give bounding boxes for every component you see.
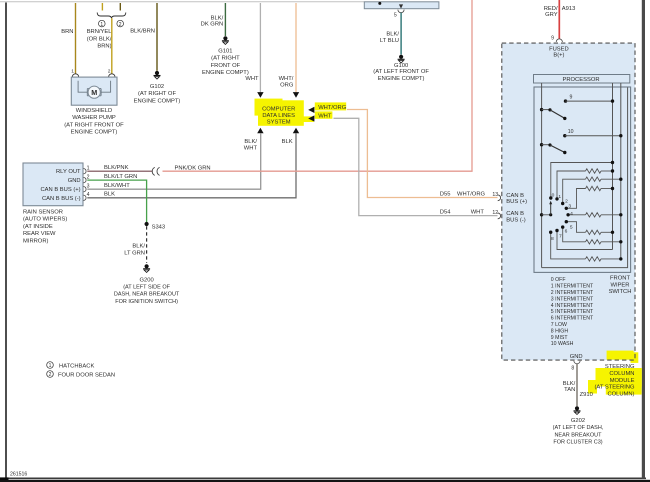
svg-text:LT GRN: LT GRN [124, 250, 145, 256]
svg-text:(AT LEFT SIDE OF: (AT LEFT SIDE OF [123, 285, 170, 291]
legend four door sedan [47, 371, 115, 379]
svg-text:BRN/YEL: BRN/YEL [87, 29, 113, 35]
svg-text:ENGINE COMPT): ENGINE COMPT) [71, 130, 118, 136]
svg-text:RLY OUT: RLY OUT [56, 169, 81, 175]
processor box [534, 75, 630, 84]
svg-text:BLK: BLK [104, 192, 115, 198]
wire PNK/DK GRN to top of page [163, 0, 473, 171]
svg-text:D55: D55 [440, 192, 451, 198]
svg-text:GRY: GRY [545, 12, 558, 18]
switch position legend [551, 277, 594, 347]
module pin 8 exit [571, 361, 580, 372]
wire label BLK/WHT [104, 183, 130, 189]
ground G102 [154, 71, 161, 79]
top cut-off frame line [0, 1, 364, 3]
svg-text:COLUMN): COLUMN) [607, 391, 634, 397]
svg-text:1: 1 [49, 363, 52, 369]
svg-text:FRONT: FRONT [610, 276, 630, 282]
svg-text:5 INTERMITTENT: 5 INTERMITTENT [551, 309, 594, 315]
legend hatchback [47, 362, 95, 370]
motor M1 washer pump [87, 86, 101, 98]
svg-text:RED/: RED/ [544, 6, 558, 12]
label PNK/DK GRN [175, 165, 211, 171]
svg-text:4: 4 [87, 192, 90, 198]
svg-text:TAN: TAN [564, 387, 575, 393]
label BLK/WHT (below box) [244, 139, 258, 151]
svg-text:WHT: WHT [471, 210, 485, 216]
wire BLK/BRN to G102 [156, 3, 158, 71]
svg-text:DASH, NEAR BREAKOUT: DASH, NEAR BREAKOUT [114, 292, 180, 298]
arrow WHT/ORG into box right side [308, 107, 314, 113]
highlight over module corner [607, 351, 639, 363]
svg-text:5: 5 [570, 225, 573, 231]
pin 9 contact row [564, 94, 614, 103]
svg-text:BLK/LT GRN: BLK/LT GRN [104, 174, 137, 180]
row 4 resistor [568, 213, 622, 217]
arrow WHT/ORG into box top [293, 92, 299, 98]
svg-text:FUSED: FUSED [549, 46, 569, 52]
svg-text:(AT RIGHT: (AT RIGHT [211, 56, 240, 62]
inline connector on RLY OUT wire [152, 167, 159, 175]
svg-text:FRONT OF: FRONT OF [211, 63, 241, 69]
wire WHT/ORG from top to computer data lines [295, 3, 297, 92]
wire RED/GRY from top [558, 0, 560, 39]
svg-text:ENGINE COMPT): ENGINE COMPT) [202, 70, 249, 76]
svg-text:BRN): BRN) [97, 44, 111, 50]
svg-text:LT BLU: LT BLU [380, 38, 399, 44]
wire label BLK [104, 192, 115, 198]
label A913 [562, 6, 576, 12]
svg-text:6: 6 [565, 228, 568, 234]
wash switch blade [540, 143, 567, 154]
svg-text:9 MIST: 9 MIST [551, 335, 569, 341]
svg-text:ENGINE COMPT): ENGINE COMPT) [134, 98, 181, 104]
top center module box (cut off) [364, 2, 439, 9]
svg-text:3: 3 [87, 183, 90, 189]
front wiper switch inner box [534, 87, 631, 272]
label G202 [553, 418, 604, 446]
wire WHT from top to computer data lines [259, 3, 261, 92]
bus stub left [541, 83, 543, 268]
svg-text:2: 2 [49, 372, 52, 378]
svg-text:S343: S343 [152, 225, 166, 231]
wire BLK/DK GRN to G101 [224, 3, 226, 36]
svg-text:BUS (-): BUS (-) [506, 217, 525, 223]
bus A (inner right) [612, 83, 614, 250]
svg-text:CAN B: CAN B [506, 193, 524, 199]
label G200 [114, 277, 180, 305]
row 1 resistor [557, 169, 614, 199]
label WHT [245, 76, 259, 82]
ground G200 [143, 264, 150, 272]
svg-text:(AT RIGHT OF: (AT RIGHT OF [138, 91, 176, 97]
svg-text:STEERING: STEERING [605, 364, 635, 370]
label front wiper switch [609, 276, 632, 296]
label CAN B BUS (+) [506, 193, 527, 205]
callout circle 2 [117, 20, 124, 27]
page left border [5, 3, 7, 479]
page bottom border [5, 477, 646, 479]
bus B (outer right) [620, 83, 622, 259]
svg-text:WINDSHIELD: WINDSHIELD [76, 108, 112, 114]
highlight steering column module text blob [588, 368, 642, 395]
callout circle 1 [99, 20, 106, 27]
label D55 WHT/ORG 13 [440, 192, 498, 199]
svg-text:WIPER: WIPER [610, 282, 629, 288]
module pin 9 entry [551, 35, 562, 42]
svg-text:PNK/DK GRN: PNK/DK GRN [175, 165, 211, 171]
label GND [570, 354, 583, 360]
top box pin 5 arrow [394, 4, 404, 18]
row 6 resistor [563, 227, 623, 244]
svg-text:1: 1 [558, 194, 561, 200]
svg-text:2: 2 [87, 174, 90, 180]
label FUSED B(+) [549, 46, 569, 58]
label G101 [202, 48, 249, 76]
svg-text:MIRROR): MIRROR) [23, 239, 49, 245]
svg-text:BLK/BRN: BLK/BRN [130, 28, 155, 34]
label CAN B BUS (-) [506, 211, 525, 223]
svg-text:B(+): B(+) [553, 53, 564, 59]
dashed wire BLK/LT GRN to G200 [146, 226, 148, 263]
svg-text:(AT INSIDE: (AT INSIDE [23, 224, 53, 230]
row 0 (OFF) [551, 161, 614, 198]
svg-text:M: M [91, 88, 97, 97]
svg-text:10 WASH: 10 WASH [551, 341, 574, 347]
svg-text:2 INTERMITTENT: 2 INTERMITTENT [551, 290, 594, 296]
svg-text:A913: A913 [562, 6, 576, 12]
wire BLK/LT GRN from pin 2 to S343 [87, 180, 146, 223]
arrow WHT into box top [257, 92, 263, 98]
svg-text:4 INTERMITTENT: 4 INTERMITTENT [551, 303, 594, 309]
arrow WHT into box right side [308, 115, 314, 121]
rain sensor pin 1 [83, 165, 89, 174]
svg-text:DATA LINES: DATA LINES [262, 113, 295, 119]
svg-text:(AT LEFT OF DASH,: (AT LEFT OF DASH, [553, 425, 604, 431]
washer pump pin 1 [71, 69, 78, 82]
pin 10 contact row [563, 129, 622, 137]
rain sensor pin 3 [83, 183, 89, 192]
rain sensor box [23, 163, 83, 206]
junction dot inside top box [378, 2, 381, 5]
arrow BLK into box bottom [293, 128, 299, 134]
svg-text:GND: GND [68, 178, 81, 184]
row 3 resistor [566, 186, 614, 208]
label RED/GRY [544, 6, 558, 18]
svg-text:FOR IGNITION SWITCH): FOR IGNITION SWITCH) [115, 299, 178, 305]
svg-text:BLK/: BLK/ [563, 381, 576, 387]
ground G101 [222, 36, 229, 44]
label BLK/BRN [130, 28, 155, 34]
svg-text:4: 4 [570, 211, 573, 217]
washer pump internal wiring [78, 81, 111, 92]
wire BLK from rain sensor pin 4 [87, 133, 296, 198]
computer data lines system highlight blob [255, 99, 314, 126]
svg-text:CAN B BUS (+): CAN B BUS (+) [40, 187, 80, 193]
label G100 [373, 63, 429, 82]
label BLK (below box) [282, 139, 293, 145]
row 5 resistor [566, 222, 614, 235]
row 2 resistor [563, 177, 623, 204]
highlight for WHT label [315, 111, 333, 118]
svg-text:2: 2 [119, 22, 122, 28]
svg-text:RAIN SENSOR: RAIN SENSOR [23, 209, 63, 215]
label BLK/LT GRN (dashed run) [124, 244, 145, 257]
wire BLK/TAN to G202 [576, 364, 578, 406]
svg-text:BLK/PNK: BLK/PNK [104, 165, 129, 171]
wire label BLK/LT GRN [104, 174, 137, 180]
svg-text:Z910: Z910 [580, 392, 593, 398]
svg-text:8 HIGH: 8 HIGH [551, 328, 569, 334]
svg-text:REAR VIEW: REAR VIEW [23, 231, 56, 237]
svg-text:ENGINE COMPT): ENGINE COMPT) [378, 76, 425, 82]
svg-text:9: 9 [551, 35, 554, 41]
svg-text:COMPUTER: COMPUTER [262, 107, 295, 113]
svg-text:BUS (+): BUS (+) [506, 199, 527, 205]
svg-text:13: 13 [492, 192, 498, 198]
svg-text:7 LOW: 7 LOW [551, 322, 567, 328]
splice S343 [145, 222, 166, 231]
arrow BLK/WHT into box bottom [257, 128, 263, 134]
label BLK/TAN [563, 381, 576, 393]
svg-text:BLK/: BLK/ [132, 244, 145, 250]
svg-text:3: 3 [568, 204, 571, 210]
row 7 (LOW) [557, 231, 613, 250]
page bottom-left corner mark [0, 477, 650, 482]
highlight for WHT/ORG label [315, 102, 346, 110]
wiper return bus [542, 88, 628, 268]
svg-text:BLK/: BLK/ [244, 139, 257, 145]
label Z910 [580, 392, 593, 398]
svg-text:SYSTEM: SYSTEM [267, 119, 291, 125]
svg-text:8: 8 [571, 365, 574, 371]
svg-text:2: 2 [108, 69, 111, 75]
svg-text:BLK: BLK [282, 139, 293, 145]
svg-text:COLUMN: COLUMN [609, 371, 634, 377]
svg-text:8: 8 [551, 236, 554, 242]
steering column module dashed border [502, 43, 635, 360]
svg-text:BLK/: BLK/ [386, 32, 399, 38]
svg-text:MODULE: MODULE [610, 378, 635, 384]
svg-text:WHT/ORG: WHT/ORG [318, 105, 347, 111]
wiper arm [540, 201, 552, 217]
svg-text:1 INTERMITTENT: 1 INTERMITTENT [551, 284, 594, 290]
brace joining option wires [97, 13, 126, 19]
svg-text:FOR CLUSTER C3): FOR CLUSTER C3) [553, 440, 602, 446]
washer pump pin 2 [108, 69, 115, 82]
label BRN/YEL (OR BLK/BRN) [87, 29, 113, 49]
label STEERING COLUMN MODULE [594, 364, 635, 397]
connector pin 12 at module [498, 213, 501, 219]
rain sensor pin labels [40, 169, 81, 202]
label G102 [134, 84, 181, 104]
svg-text:SWITCH: SWITCH [609, 289, 632, 295]
svg-text:5: 5 [394, 13, 397, 19]
svg-text:ORG: ORG [280, 82, 294, 88]
svg-text:1: 1 [100, 22, 103, 28]
svg-text:7: 7 [559, 234, 562, 240]
wire BLK/PNK from pin 1 [87, 170, 152, 172]
svg-text:6 INTERMITTENT: 6 INTERMITTENT [551, 316, 594, 322]
svg-text:1: 1 [71, 69, 74, 75]
label WHT (right side) [318, 113, 332, 119]
ground G100 [398, 55, 405, 63]
svg-text:3 INTERMITTENT: 3 INTERMITTENT [551, 296, 594, 302]
svg-text:(AUTO WIPERS): (AUTO WIPERS) [23, 217, 67, 223]
mist switch blade [540, 108, 567, 120]
rotary contacts 0-8 [549, 196, 570, 234]
connector pin 13 at module [498, 195, 501, 201]
svg-text:G102: G102 [150, 84, 164, 90]
wire WHT/ORG from computer box to D55 [347, 110, 498, 198]
svg-text:261516: 261516 [10, 471, 27, 477]
contact position labels [551, 193, 573, 242]
svg-text:G101: G101 [218, 48, 232, 54]
svg-text:D54: D54 [440, 210, 451, 216]
svg-text:WHT: WHT [244, 145, 258, 151]
label rain sensor [23, 209, 67, 244]
svg-text:(AT STEERING: (AT STEERING [594, 385, 635, 391]
label COMPUTER DATA LINES SYSTEM [262, 107, 295, 126]
svg-text:WHT: WHT [245, 76, 259, 82]
svg-text:BRN: BRN [61, 29, 73, 35]
svg-text:12: 12 [492, 210, 498, 216]
svg-text:2: 2 [565, 199, 568, 205]
svg-text:GND: GND [570, 354, 583, 360]
svg-text:(AT RIGHT FRONT OF: (AT RIGHT FRONT OF [64, 122, 124, 128]
wire BRN/YEL (washer pump pin 2) [111, 18, 113, 73]
svg-text:(OR BLK/: (OR BLK/ [87, 36, 112, 42]
svg-text:WASHER PUMP: WASHER PUMP [72, 115, 116, 121]
wire BRN (washer pump pin 1) [75, 3, 77, 74]
svg-text:WHT/ORG: WHT/ORG [457, 192, 486, 198]
svg-text:CAN B BUS (-): CAN B BUS (-) [42, 196, 81, 202]
ground G202 [574, 406, 581, 414]
svg-text:HATCHBACK: HATCHBACK [59, 363, 94, 369]
svg-text:FOUR DOOR SEDAN: FOUR DOOR SEDAN [58, 372, 115, 378]
svg-text:PROCESSOR: PROCESSOR [562, 77, 599, 83]
svg-text:WHT/: WHT/ [279, 76, 294, 82]
wire BLK/LT BLU to G100 [400, 13, 402, 55]
svg-text:1: 1 [87, 165, 90, 171]
svg-text:9: 9 [570, 94, 573, 100]
svg-text:0: 0 [552, 193, 555, 199]
svg-text:0 OFF: 0 OFF [551, 277, 566, 283]
svg-text:10: 10 [568, 129, 574, 135]
svg-text:G202: G202 [571, 418, 585, 424]
page right border [642, 0, 645, 479]
wire stub 2 (BLK/BRN option) [119, 3, 121, 11]
row 8 resistor [551, 232, 623, 261]
washer pump box [71, 77, 117, 105]
rain sensor pin 4 [83, 192, 89, 201]
rain sensor pin 2 [83, 174, 89, 182]
wire label BLK/PNK [104, 165, 129, 171]
label D54 WHT 12 [440, 210, 498, 217]
svg-text:DK GRN: DK GRN [201, 21, 224, 27]
label BLK/LT BLU [380, 32, 400, 44]
wire WHT from computer box to D54 [334, 118, 498, 215]
svg-text:G200: G200 [140, 277, 154, 283]
label WHT/ORG (right side) [318, 105, 347, 111]
label BRN [61, 29, 73, 35]
svg-text:WHT: WHT [318, 113, 332, 119]
wire BLK/WHT from rain sensor pin 3 [87, 133, 260, 189]
svg-text:BLK/WHT: BLK/WHT [104, 183, 130, 189]
steering column module dashed box fill (FUSED B+) [502, 43, 635, 360]
svg-text:(AT LEFT FRONT OF: (AT LEFT FRONT OF [373, 69, 429, 75]
svg-text:CAN B: CAN B [506, 211, 524, 217]
wire stub 1 (BRN/YEL option) [101, 3, 103, 11]
label windshield washer pump [64, 108, 124, 136]
diagram number 261516 [10, 471, 27, 477]
label BLK/DK GRN [201, 15, 224, 27]
svg-text:NEAR BREAKOUT: NEAR BREAKOUT [554, 432, 602, 438]
label WHT/ORG [279, 76, 294, 88]
